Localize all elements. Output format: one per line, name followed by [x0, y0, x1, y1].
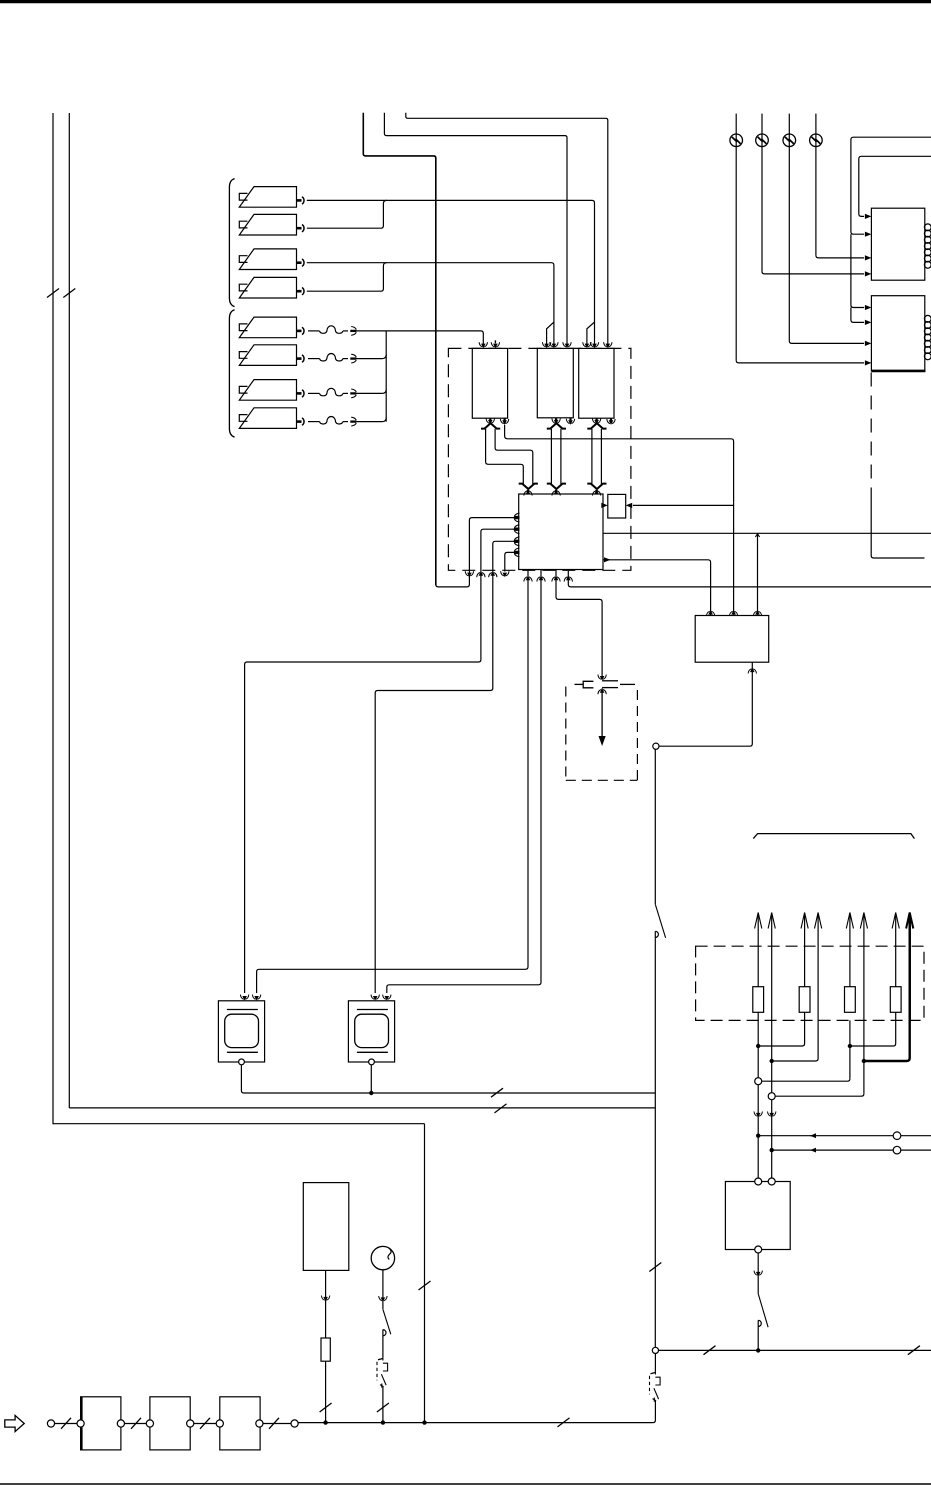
fuse-group wire 5 (fuse F3)	[845, 913, 856, 1013]
box: control relay	[695, 616, 769, 663]
wire: controller signal bus to relay column	[508, 439, 734, 503]
switch: safety relay contact (blade)	[655, 904, 665, 938]
switch SW6 (fused)	[239, 345, 304, 366]
connector C1 on fuse wire 1	[755, 1078, 762, 1085]
fuse-group wire 1 (fuse F1)	[753, 913, 764, 1013]
wire: interface module to relay column	[626, 503, 734, 508]
top border rule	[0, 0, 931, 3]
switch: starter cutoff blade	[758, 1294, 768, 1328]
lamp L4	[810, 134, 823, 147]
wire: relay output to connector node	[659, 662, 757, 746]
bracket for switch bank 2	[229, 310, 234, 437]
fusible link FL3 on SW7 wire	[308, 388, 356, 397]
chain connector 0	[47, 1420, 54, 1427]
harness break on left feed 1	[47, 289, 59, 298]
box: controller A	[472, 348, 507, 418]
box: solenoid valve 1	[871, 208, 924, 280]
wire: ECU left out 3 (to monitor 2)	[371, 537, 520, 1001]
fuse-group wire 8	[906, 913, 913, 1021]
hour meter M1	[371, 1246, 394, 1269]
fuse-group wire 6	[860, 913, 867, 1021]
circuit breaker CB2	[377, 1358, 388, 1388]
fuse wire 5 lower run	[762, 1020, 852, 1081]
relay 2 output terminal	[755, 1246, 762, 1253]
wire: ECU bottom 4 (long feed to page right)	[564, 570, 931, 587]
wire: stub S3 to box3 right input	[406, 113, 612, 349]
switch SW5 (fused)	[239, 317, 304, 338]
wire: J2 down to breaker	[654, 1354, 656, 1372]
stub arrow: controller A output to signal wire	[500, 418, 508, 439]
wire: fuse to bottom bus	[320, 1361, 332, 1425]
fuse F5	[321, 1338, 330, 1361]
connector C2 on fuse wire 2	[768, 1093, 775, 1100]
wire: hour meter to switch	[379, 1270, 387, 1310]
connector node J1	[653, 743, 659, 749]
wire: power unit to fuse	[321, 1270, 329, 1338]
lamp L4 wire	[816, 114, 872, 261]
relay 2 terminal A	[755, 1178, 762, 1185]
box: junction block B	[150, 1397, 190, 1450]
wire: ECU right out B (to relay input 1)	[603, 557, 715, 616]
circuit breaker CB1	[650, 1372, 661, 1402]
lamp L1	[730, 134, 743, 147]
chain wire 3	[263, 1418, 291, 1429]
wire: relay input 2 column	[729, 503, 737, 616]
fuse wire 6 lower run	[776, 1020, 867, 1096]
wire: breaker to bottom bus	[298, 1401, 656, 1423]
wire: ECU left out 4 (spare)	[501, 548, 520, 577]
gauge: monitor display 2	[348, 1001, 394, 1065]
chain wire 1	[125, 1418, 147, 1429]
terminal A-left	[77, 1420, 84, 1427]
dashed box: fuse block	[696, 946, 924, 1020]
fusible link FL2 on SW6 wire	[308, 354, 356, 364]
wire: left feed 2 vertical (x69)	[68, 113, 70, 1108]
wide arrow: controller B comm bus	[547, 418, 566, 495]
lamp L3 wire	[789, 114, 871, 346]
wire: stub S2 to box2 right input	[384, 113, 571, 349]
hour meter fixed contact	[383, 1330, 386, 1358]
box: interface module	[608, 494, 626, 518]
wire: SW5 run to box1 top input	[354, 331, 488, 348]
fuse-group wire 3 (fuse F2)	[799, 913, 810, 1013]
lamp L1 wire	[736, 114, 871, 366]
connector on aux feed 1	[893, 1132, 901, 1140]
terminal B-left	[146, 1420, 153, 1427]
wide arrow: controller C comm bus	[587, 418, 606, 495]
box: controller B	[537, 348, 573, 417]
wire: SW1 output to box3 top	[307, 200, 599, 348]
chain wire 0	[55, 1418, 77, 1429]
wire: switch to node J2	[649, 939, 661, 1348]
switch: hour meter blade	[383, 1309, 391, 1334]
dashed enclosure: control unit group	[448, 348, 631, 570]
page-entry block arrow	[5, 1415, 24, 1431]
arrow: ECU to interface module	[601, 503, 608, 508]
wire: monitor commons to key-switch column	[241, 1065, 655, 1097]
box: main controller (ECU)	[519, 494, 603, 570]
stub arrow: controller B output	[566, 418, 574, 425]
safety switch fixed contact	[655, 931, 658, 938]
wire: ECU right out A (feed to page right, branch to relay)	[603, 533, 931, 616]
wire: aux feed 2 to page right	[772, 1148, 931, 1153]
terminal C-right	[256, 1420, 263, 1427]
fusible link FL1 on SW5 wire	[308, 326, 356, 336]
box: power unit	[303, 1183, 349, 1271]
overbrace above fuse group	[753, 834, 914, 839]
lamp L2 wire	[762, 114, 871, 277]
harness break on bottom bus	[558, 1418, 570, 1427]
wire: J1 down to safety switch	[654, 749, 656, 904]
wire: solenoid feed A	[851, 137, 931, 325]
starter cutoff fixed contact	[758, 1320, 761, 1350]
bracket for switch bank 1	[229, 179, 234, 307]
wire: CB2 to bottom bus	[377, 1387, 389, 1425]
wire: SW2 output joining SW1 wire	[307, 200, 387, 228]
stub arrow into controller A top	[491, 340, 499, 348]
switch SW1	[239, 187, 304, 208]
wire: ECU left out 2 (to monitor 1)	[240, 525, 519, 1001]
harness break on left feed 2	[63, 289, 75, 298]
fuse-group wire 4	[815, 913, 822, 1021]
lamp L3	[783, 134, 796, 147]
wire: left feed 1 vertical (x53)	[52, 113, 54, 1124]
terminal A-right	[117, 1420, 124, 1427]
bottom border rule	[0, 1483, 931, 1485]
fuse wire 2 lower run	[770, 1020, 774, 1092]
junction of left feed 1 on bottom bus	[422, 1420, 426, 1424]
wire: ECU left out 1 (to junction col)	[436, 513, 520, 587]
relay 2 terminal B	[768, 1178, 775, 1185]
chain wire 2	[194, 1418, 216, 1429]
wide arrow: controller A comm bus	[481, 418, 538, 495]
box: controller C	[579, 348, 614, 418]
switch SW8 (fused)	[239, 408, 304, 429]
lamp L2	[756, 134, 769, 147]
stub arrow: controller C output	[607, 418, 615, 425]
chain connector 4	[291, 1420, 298, 1427]
fuse wire 8 merge into wire 6 (bold)	[864, 914, 910, 1062]
wire: SW4 output joining SW3 wire	[307, 263, 387, 292]
arrow into actuator	[599, 692, 606, 746]
gauge: monitor display 1	[218, 1001, 264, 1065]
fuse wire 3 merge into wire 1	[758, 1012, 804, 1046]
wire: merge bus of fused switches (x386)	[354, 332, 387, 422]
coil of solenoid 2	[924, 315, 931, 359]
wire: SW3 output to box2 top	[307, 263, 558, 349]
dashed box: actuator	[566, 687, 638, 781]
box: solenoid valve 2	[871, 296, 925, 371]
dashed wire below solenoid 2	[871, 373, 924, 559]
fusible link FL4 on SW8 wire	[308, 417, 356, 426]
wire: C1 to relay 2	[754, 1085, 762, 1178]
connector on aux feed 2	[893, 1146, 901, 1154]
box: junction block A	[81, 1397, 121, 1450]
wire: stub S1 down to junction column	[363, 113, 436, 586]
wire: relay 2 output to switch	[754, 1253, 762, 1294]
switch SW3	[239, 249, 304, 270]
coil of solenoid 1	[924, 224, 931, 268]
wire: left feed 2 run to key-switch column	[69, 1104, 655, 1113]
wire: left feed 1 lower run to bottom bus	[53, 1124, 431, 1422]
connector node J2	[652, 1347, 658, 1353]
terminal B-right	[187, 1420, 194, 1427]
wire: ECU bottom 1 (to monitor 1 second input)	[252, 570, 532, 1001]
fuse wire 4 merge into wire 2	[772, 1020, 818, 1061]
fuse wire 1 lower run	[756, 1012, 760, 1078]
fuse-group wire 7 (fuse F4)	[890, 913, 901, 1013]
wire: ECU bottom 3 (to connector in dashed box)	[552, 570, 607, 681]
box: starter relay	[725, 1182, 790, 1250]
switch SW4	[239, 277, 304, 298]
wire: ECU bottom 2 (to monitor 2 second input)	[383, 570, 546, 1001]
fuse-group wire 2	[768, 913, 775, 1021]
connector joint symbol	[575, 681, 636, 694]
junction on accessory bus	[756, 1348, 760, 1352]
fuse wire 7 merge into wire 5	[850, 1012, 896, 1046]
switch SW7 (fused)	[239, 380, 304, 401]
accessory bus wire	[659, 1346, 931, 1355]
wire: C2 to relay 2	[768, 1100, 776, 1178]
box: junction block C	[220, 1397, 260, 1450]
wire: aux feed 1 to page right	[758, 1133, 931, 1138]
wire: solenoid feed B	[859, 156, 931, 219]
terminal C-left	[216, 1420, 223, 1427]
switch SW2	[239, 214, 304, 235]
